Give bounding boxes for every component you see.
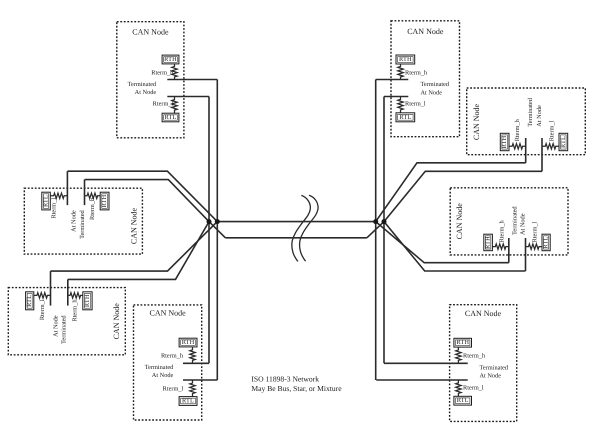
svg-text:RTL: RTL bbox=[43, 195, 50, 207]
wire N4 stub1 vertical bbox=[50, 271, 52, 306]
wire N7 CAN stub upper bbox=[183, 362, 209, 364]
wire N6 stub2 vertical bbox=[525, 238, 527, 271]
svg-text:Terminated: Terminated bbox=[527, 97, 534, 126]
bus break symbol curve 1 bbox=[292, 195, 310, 261]
node N2 top-right CAN Node box bbox=[391, 21, 460, 137]
svg-text:CAN Node: CAN Node bbox=[465, 309, 502, 318]
connector box RTH (N6) bbox=[484, 234, 493, 251]
svg-text:Rterm_l: Rterm_l bbox=[532, 222, 539, 243]
node N3 left-middle CAN Node box bbox=[24, 188, 142, 254]
wire N7 CAN stub lower bbox=[183, 379, 217, 381]
node N4 bottom-left CAN Node box bbox=[8, 288, 125, 355]
svg-text:Rterm_l: Rterm_l bbox=[39, 299, 46, 320]
node N6 right-middle-lower CAN Node box bbox=[450, 188, 568, 255]
wire N3 upper branch to junction bbox=[67, 171, 217, 221]
svg-text:Terminated: Terminated bbox=[61, 315, 68, 344]
wire bus H1 CAN_H horizontal bbox=[217, 221, 375, 223]
connector box RTH (N4) bbox=[83, 292, 92, 310]
resistor Rterm_l (N2) bbox=[398, 97, 403, 113]
svg-text:CAN Node: CAN Node bbox=[149, 309, 186, 318]
node N7 bottom-center CAN Node box bbox=[134, 305, 202, 420]
connector box RTL (N1) bbox=[162, 113, 179, 122]
svg-text:CAN Node: CAN Node bbox=[455, 203, 464, 240]
wire N2 CAN_L stub bbox=[384, 96, 408, 98]
wire N3 stub2 vertical bbox=[84, 180, 86, 206]
svg-text:At Node: At Node bbox=[152, 372, 174, 379]
svg-text:Rterm_l: Rterm_l bbox=[463, 384, 484, 391]
resistor Rterm_l (N5) bbox=[542, 144, 559, 149]
svg-text:Rterm_h: Rterm_h bbox=[405, 70, 428, 77]
svg-text:Rterm_l: Rterm_l bbox=[549, 120, 556, 141]
wire N5 lower branch to junction bbox=[384, 171, 542, 221]
svg-text:Terminated: Terminated bbox=[128, 81, 157, 88]
resistor Rterm_l (N4) bbox=[34, 293, 51, 298]
wire N2 CAN_H stub bbox=[376, 79, 409, 81]
node N1 top-left CAN Node box bbox=[117, 22, 184, 138]
node N5 right-middle-upper CAN Node box bbox=[467, 88, 586, 155]
svg-text:CAN Node: CAN Node bbox=[132, 28, 169, 37]
svg-text:Rterm_l: Rterm_l bbox=[405, 100, 426, 107]
wire N1 CAN_L stub bbox=[167, 96, 209, 98]
wire N1 CAN_H stub bbox=[167, 79, 217, 81]
wire N4 stub2 vertical bbox=[67, 279, 69, 305]
connector box RTL (N8) bbox=[454, 396, 472, 405]
svg-text:Terminated: Terminated bbox=[480, 365, 509, 372]
wire N5 stub1 vertical bbox=[525, 138, 527, 163]
svg-text:Terminated: Terminated bbox=[79, 209, 86, 238]
svg-text:Terminated: Terminated bbox=[511, 206, 518, 235]
bus break symbol curve 2 bbox=[300, 195, 318, 261]
connector box RTL (N4) bbox=[26, 292, 34, 310]
svg-text:RTL: RTL bbox=[457, 397, 469, 404]
svg-text:At Node: At Node bbox=[52, 315, 59, 337]
svg-text:RTH: RTH bbox=[164, 56, 177, 63]
resistor Rterm_h (N8) bbox=[456, 347, 461, 363]
resistor Rterm_h (N1) bbox=[172, 64, 177, 80]
wire N4 lower branch to junction bbox=[68, 222, 209, 280]
svg-text:Terminated: Terminated bbox=[421, 81, 450, 88]
connector box RTL (N3) bbox=[42, 192, 51, 210]
svg-text:RTL: RTL bbox=[543, 236, 550, 248]
wire vertical bus A (top-left CAN_L down to bottom-center) bbox=[208, 97, 210, 364]
wire H2 right riser to node D bbox=[367, 222, 384, 238]
wire vertical bus D (top-right CAN_L down to bottom-right) bbox=[383, 97, 385, 364]
svg-text:RTL: RTL bbox=[26, 295, 33, 307]
connector box RTL (N2) bbox=[396, 113, 415, 122]
svg-text:Rterm_h: Rterm_h bbox=[463, 353, 486, 360]
wire N8 CAN stub upper bbox=[384, 362, 468, 364]
svg-text:At Node: At Node bbox=[71, 210, 78, 232]
junction dot right star CAN_L bbox=[382, 219, 387, 224]
svg-text:At Node: At Node bbox=[520, 213, 527, 235]
wire bus H2 CAN_L horizontal bbox=[225, 237, 367, 239]
wire N5 stub2 vertical bbox=[541, 138, 543, 171]
svg-text:RTL: RTL bbox=[399, 114, 411, 121]
svg-text:Rterm_h: Rterm_h bbox=[161, 353, 184, 360]
wire N5 upper branch to junction bbox=[376, 163, 526, 222]
connector box RTH (N8) bbox=[454, 338, 472, 347]
svg-text:RTH: RTH bbox=[84, 294, 91, 307]
wire N4 upper branch to junction bbox=[51, 222, 218, 272]
svg-text:Rterm_h: Rterm_h bbox=[72, 299, 79, 322]
resistor Rterm_h (N3) bbox=[85, 193, 101, 198]
svg-text:RTH: RTH bbox=[456, 339, 469, 346]
connector box RTH (N1) bbox=[162, 55, 179, 64]
svg-text:At Node: At Node bbox=[421, 89, 443, 96]
connector box RTH (N3) bbox=[100, 192, 109, 210]
connector box RTL (N7) bbox=[179, 397, 197, 406]
svg-text:Rterm_h: Rterm_h bbox=[89, 197, 96, 220]
connector box RTL (N6) bbox=[542, 234, 550, 251]
svg-text:CAN Node: CAN Node bbox=[130, 207, 139, 244]
wire N3 lower branch to junction bbox=[85, 180, 210, 222]
wire vertical bus B (top-left CAN_H down to bottom-center) bbox=[216, 80, 218, 381]
resistor Rterm_l (N8) bbox=[456, 380, 461, 396]
wire N6 upper branch to junction bbox=[376, 222, 509, 263]
resistor Rterm_l (N6) bbox=[526, 244, 543, 249]
connector box RTH (N5) bbox=[500, 133, 509, 150]
svg-text:ISO 11898-3 Network: ISO 11898-3 Network bbox=[251, 375, 319, 384]
connector box RTL (N5) bbox=[559, 133, 568, 150]
svg-text:At Node: At Node bbox=[135, 89, 157, 96]
wire N8 CAN stub lower bbox=[376, 379, 467, 381]
svg-text:RTL: RTL bbox=[182, 398, 194, 405]
svg-text:RTH: RTH bbox=[399, 56, 412, 63]
svg-text:RTL: RTL bbox=[165, 114, 177, 121]
junction dot right star CAN_H bbox=[373, 219, 378, 224]
svg-text:Rterm_l: Rterm_l bbox=[153, 100, 174, 107]
svg-text:RTH: RTH bbox=[101, 194, 108, 207]
connector box RTH (N2) bbox=[396, 55, 415, 64]
wire N6 lower branch to junction bbox=[384, 222, 526, 271]
svg-text:RTL: RTL bbox=[560, 136, 567, 148]
resistor Rterm_h (N5) bbox=[509, 144, 526, 149]
svg-text:May Be Bus, Star, or Mixture: May Be Bus, Star, or Mixture bbox=[251, 384, 342, 393]
wire H2 left riser to node A bbox=[209, 222, 225, 238]
wire vertical bus C (top-right CAN_H down to bottom-right) bbox=[375, 80, 377, 381]
svg-text:Rterm_h: Rterm_h bbox=[514, 118, 521, 141]
resistor Rterm_h (N2) bbox=[398, 64, 403, 80]
svg-text:Rterm_l: Rterm_l bbox=[163, 385, 184, 392]
resistor Rterm_h (N7) bbox=[190, 347, 195, 363]
svg-text:RTH: RTH bbox=[182, 339, 195, 346]
connector box RTH (N7) bbox=[179, 338, 197, 347]
junction dot left star CAN_H bbox=[215, 219, 220, 224]
resistor Rterm_l (N7) bbox=[190, 380, 195, 397]
svg-text:RTH: RTH bbox=[501, 135, 508, 148]
resistor Rterm_l (N3) bbox=[50, 193, 67, 198]
svg-text:At Node: At Node bbox=[480, 372, 502, 379]
svg-text:Rterm_h: Rterm_h bbox=[151, 70, 174, 77]
wire N6 stub1 vertical bbox=[508, 238, 510, 263]
svg-text:CAN Node: CAN Node bbox=[472, 103, 481, 140]
junction dot left star CAN_L bbox=[207, 219, 212, 224]
node N8 bottom-right CAN Node box bbox=[450, 305, 517, 422]
svg-text:CAN Node: CAN Node bbox=[112, 303, 121, 340]
svg-text:At Node: At Node bbox=[536, 105, 543, 127]
resistor Rterm_h (N4) bbox=[68, 293, 83, 298]
svg-text:Rterm_h: Rterm_h bbox=[499, 220, 506, 243]
svg-text:RTH: RTH bbox=[485, 236, 492, 249]
wire N3 stub1 vertical bbox=[66, 171, 68, 205]
resistor Rterm_l (N1) bbox=[172, 97, 177, 114]
svg-text:Rterm_l: Rterm_l bbox=[51, 198, 58, 219]
svg-text:Terminated: Terminated bbox=[145, 364, 174, 371]
resistor Rterm_h (N6) bbox=[492, 244, 508, 249]
svg-text:CAN Node: CAN Node bbox=[407, 27, 444, 36]
